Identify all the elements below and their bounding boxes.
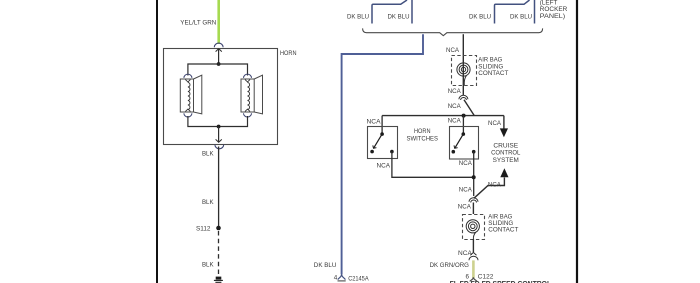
label DK BLU 4 (510, 13, 532, 20)
label NCA cruise top (488, 120, 502, 127)
wire horn return vertical (218, 127, 220, 142)
connector at horn box bottom (215, 139, 224, 148)
wire DK BLU bracket left pair (372, 0, 412, 24)
label S112 (196, 226, 211, 233)
label BLK middle (202, 199, 214, 206)
connector at C122 (469, 252, 478, 260)
label CRUISE CONTROL SYSTEM (491, 142, 521, 163)
label BLK lower (202, 261, 214, 268)
svg-text:DK BLU: DK BLU (388, 13, 410, 20)
label NCA right switch bottom (459, 160, 473, 167)
svg-text:DK GRN/ORG: DK GRN/ORG (430, 262, 469, 269)
wire to lower sliding contact (472, 203, 474, 215)
horn component box (164, 49, 278, 145)
label DK BLU 3 (469, 13, 491, 20)
horn switch left box (368, 127, 398, 159)
svg-text:NCA: NCA (459, 160, 473, 167)
label NCA below upper contact (448, 88, 462, 95)
svg-text:SWITCHES: SWITCHES (407, 135, 439, 142)
svg-text:BLK: BLK (202, 150, 214, 157)
node junction bottom inside horn (217, 125, 221, 129)
splice S112 node (216, 226, 221, 231)
wire top distribution horizontal (188, 64, 248, 76)
label DK BLU 2 (388, 13, 410, 20)
wire diagonal from connector to bus (464, 100, 474, 116)
svg-text:4: 4 (334, 275, 338, 282)
right page border line (576, 0, 578, 283)
brace grouping connector (363, 28, 543, 35)
svg-text:NCA: NCA (458, 250, 473, 257)
wire DK BLU bracket right pair (495, 0, 535, 24)
svg-text:HORN: HORN (414, 128, 431, 135)
horn switch left contacts (370, 132, 393, 153)
svg-text:NCA: NCA (448, 117, 462, 124)
label NCA left switch bottom (377, 163, 391, 170)
wire right switch feed vertical (462, 116, 464, 134)
svg-text:NCA: NCA (488, 181, 502, 188)
svg-text:CONTACT: CONTACT (478, 70, 508, 77)
label AIR BAG SLIDING CONTACT upper (478, 57, 508, 77)
label BLK upper (202, 150, 214, 157)
wire bottom collection horizontal (188, 116, 248, 127)
svg-text:CONTROL: CONTROL (491, 150, 521, 157)
node junction lower (472, 175, 476, 179)
connector C2145A symbol (338, 274, 346, 281)
svg-text:NCA: NCA (488, 120, 502, 127)
wire cruise branch up arrow (474, 168, 509, 198)
label (LEFT ROCKER PANEL) (540, 0, 568, 20)
left page border line (156, 0, 158, 283)
wire below lower contact (472, 239, 474, 252)
label DK GRN/ORG (430, 262, 469, 269)
wire horn feed vertical inside box (218, 49, 220, 65)
wire DK GRN/ORG (472, 260, 475, 278)
wire left switch output (392, 152, 474, 178)
wire DK BLU drop to C2145A (342, 34, 423, 274)
connector C122 symbol (470, 277, 477, 281)
label NCA right switch top (448, 117, 462, 124)
node junction top inside horn (217, 62, 221, 66)
svg-text:YEL/LT GRN: YEL/LT GRN (180, 19, 216, 26)
svg-text:BLK: BLK (202, 199, 214, 206)
svg-text:DK BLU: DK BLU (469, 13, 491, 20)
label 4 (334, 275, 338, 282)
ground G100 symbol (214, 277, 223, 283)
airbag sliding contact upper spiral (457, 63, 470, 86)
horn element left (180, 74, 202, 117)
connector inline upper (459, 95, 468, 100)
svg-text:DK BLU: DK BLU (510, 13, 532, 20)
horn switch right contacts (452, 132, 476, 153)
label C122 (478, 274, 494, 281)
svg-text:NCA: NCA (446, 47, 460, 54)
wire left switch feed vertical (381, 116, 383, 134)
label HORN (280, 50, 297, 57)
svg-text:FL FD FD FD SPEED CONTROL: FL FD FD FD SPEED CONTROL (450, 279, 552, 283)
svg-text:CONTACT: CONTACT (488, 227, 518, 234)
label NCA cruise bottom (488, 181, 502, 188)
wire BLK dashed to ground (218, 231, 220, 276)
label 6 (466, 274, 470, 281)
label NCA below lower contact (458, 250, 473, 257)
wire right switch output (473, 152, 475, 196)
svg-text:NCA: NCA (458, 204, 472, 211)
svg-text:CRUISE: CRUISE (493, 142, 518, 149)
svg-text:PANEL): PANEL) (540, 13, 565, 20)
svg-text:NCA: NCA (367, 118, 382, 125)
svg-text:S112: S112 (196, 226, 211, 233)
horn element right (241, 74, 263, 117)
label NCA above lower contact (458, 204, 472, 211)
horn switch right box (450, 127, 479, 160)
airbag sliding contact lower box (463, 215, 485, 240)
label HORN SWITCHES (407, 128, 439, 142)
wire NCA from brace to upper sliding contact (462, 34, 464, 95)
label NCA left switch top (367, 118, 382, 125)
airbag sliding contact upper box (452, 56, 477, 86)
svg-text:SYSTEM: SYSTEM (493, 157, 519, 164)
svg-text:HORN: HORN (280, 50, 297, 57)
wire YEL/LT GRN vertical (217, 0, 220, 44)
connector at horn box top (214, 43, 223, 52)
label DK BLU bottom (314, 262, 337, 269)
svg-text:DK BLU: DK BLU (347, 13, 369, 20)
svg-text:BLK: BLK (202, 261, 214, 268)
label DK BLU 1 (347, 13, 369, 20)
connector inline lower (469, 198, 478, 203)
label C2145A (348, 275, 369, 282)
label NCA above upper contact (446, 47, 460, 54)
wire BLK solid below horn (218, 147, 220, 227)
svg-text:NCA: NCA (448, 88, 462, 95)
node junction on bus (462, 114, 466, 118)
airbag sliding contact lower spiral (466, 220, 479, 239)
svg-text:NCA: NCA (448, 103, 462, 110)
label NCA mid left of wire (448, 103, 462, 110)
clipped bottom caption SPEED CONTROL (450, 279, 552, 283)
label YEL/LT GRN (180, 19, 216, 26)
svg-text:DK BLU: DK BLU (314, 262, 337, 269)
wire cruise branch down arrow (500, 116, 508, 138)
svg-text:NCA: NCA (377, 163, 391, 170)
svg-text:NCA: NCA (459, 187, 473, 194)
wire horn switch bus horizontal (382, 115, 504, 117)
label NCA above lower connector (459, 187, 473, 194)
svg-text:C2145A: C2145A (348, 275, 369, 282)
label AIR BAG SLIDING CONTACT lower (488, 213, 518, 233)
